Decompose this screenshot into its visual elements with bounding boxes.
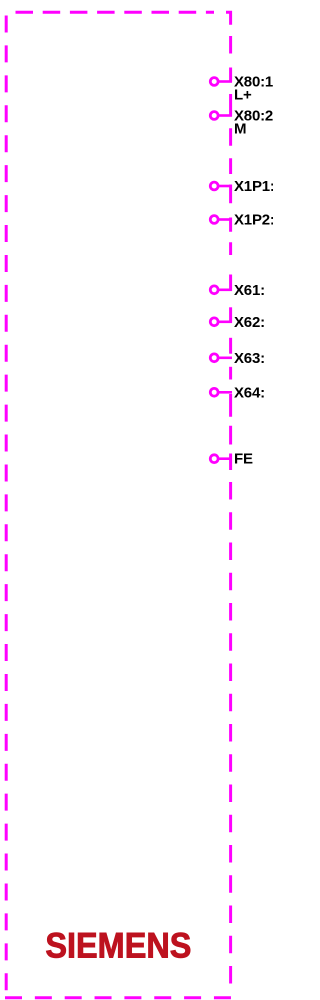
svg-text:X62:: X62: [234,314,265,331]
label FE [234,451,253,468]
device outline: bottom border (dashed) [5,996,232,999]
label X80:1 [234,74,273,104]
svg-text:X64:: X64: [234,384,265,401]
terminal pin X64 [210,388,232,416]
svg-text:X63:: X63: [234,350,265,367]
label X1P1 [234,178,275,195]
label X63 [234,350,265,367]
terminal pin X62 [210,307,232,325]
device outline: right border (dashed) [229,36,232,984]
svg-text:M: M [234,121,246,138]
svg-text:X1P2:: X1P2: [234,212,273,229]
label X80:2 [234,108,273,138]
terminal pin X1P1 [210,182,232,203]
device outline: left border (dashed) [5,16,8,992]
svg-text:L+: L+ [234,87,252,104]
svg-text:FE: FE [234,451,253,468]
terminal pin X61 [210,275,232,294]
label X64 [234,384,265,401]
terminal pin FE [210,454,232,471]
device outline: top border (dashed) [16,11,215,14]
label X61 [234,282,265,299]
terminal pin X1P2 [210,216,232,232]
svg-text:X61:: X61: [234,282,265,299]
terminal pin X63 [210,354,232,362]
label X1P2 [234,212,275,229]
svg-text:X1P1:: X1P1: [234,178,273,195]
device outline: top-right corner [226,12,231,25]
svg-text:SIEMENS: SIEMENS [45,927,191,966]
terminal pin X80:1 [210,68,232,86]
terminal pin X80:2 [210,94,232,119]
label X62 [234,314,265,331]
